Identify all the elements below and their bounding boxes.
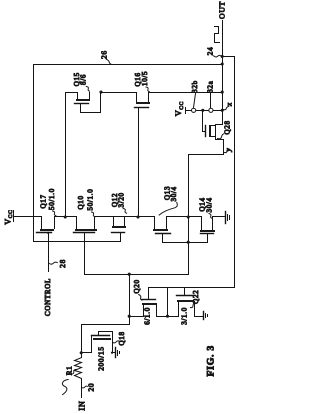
svg-text:IN: IN bbox=[78, 401, 87, 411]
wire chain segment VCC to Q17 bbox=[14, 216, 42, 218]
label Q10 50/1.0 bbox=[77, 189, 95, 217]
wire Q13 gate lead to bus2 bbox=[162, 234, 164, 243]
svg-text:30/4: 30/4 bbox=[170, 186, 178, 201]
svg-text:50/1.0: 50/1.0 bbox=[48, 188, 56, 210]
node dot bus2/y vertical bbox=[187, 241, 190, 244]
svg-text:10/5: 10/5 bbox=[141, 71, 149, 86]
node dot between circles (Q28 gate tap) bbox=[201, 109, 204, 112]
svg-text:26: 26 bbox=[99, 50, 108, 59]
svg-text:24: 24 bbox=[205, 47, 214, 56]
wire y branch down to IN loop bbox=[82, 275, 130, 358]
node dot VCC wire / OUT wire bbox=[221, 109, 224, 112]
transistor Q10 bbox=[74, 217, 98, 233]
transistor Q13 bbox=[153, 217, 171, 234]
label Q13 30/4 bbox=[159, 186, 178, 215]
label 32b bbox=[191, 80, 199, 107]
wire Q20 gate-line stub bbox=[130, 316, 144, 318]
wire mirror bus2 bbox=[163, 242, 208, 244]
node dot gate line Q20 bbox=[128, 315, 131, 318]
node dot S/D line / out-line vertical bbox=[166, 315, 169, 318]
svg-text:Q20: Q20 bbox=[133, 279, 141, 293]
svg-text:Q22: Q22 bbox=[192, 290, 200, 304]
label R1 bbox=[65, 366, 76, 376]
svg-text:Q10: Q10 bbox=[77, 195, 85, 209]
node 26 label bbox=[99, 50, 110, 64]
node dot chain/Q16 gate bbox=[136, 215, 139, 218]
node dot rail26/OUT bbox=[221, 62, 224, 65]
node 24 label bbox=[205, 47, 221, 58]
terminal circle 32b bbox=[192, 108, 196, 112]
waveform pulse symbol bbox=[215, 27, 220, 43]
node dot Q16 line / OUT wire bbox=[221, 91, 224, 94]
label Q28 bbox=[218, 120, 232, 138]
svg-text:32b: 32b bbox=[191, 80, 199, 93]
wire y line horizontal bbox=[85, 274, 189, 276]
svg-text:Q18: Q18 bbox=[118, 331, 126, 345]
label Q15 8/6 bbox=[73, 72, 90, 91]
node dot chain/vertical A bbox=[64, 215, 67, 218]
wire chain segment Q17 to Q10 bbox=[55, 216, 77, 218]
label Q18 bbox=[113, 331, 127, 345]
svg-text:30/4: 30/4 bbox=[205, 197, 213, 212]
svg-text:50/1.0: 50/1.0 bbox=[86, 189, 94, 211]
wire chain segment Q10 to Q13 (continuous over cap Q12) bbox=[95, 216, 155, 218]
wire Q28 drain from OUT wire bbox=[216, 111, 223, 125]
wire Q12 gate lead to bus1 bbox=[120, 233, 122, 242]
wire Q18 to ground bbox=[113, 352, 115, 354]
svg-text:28: 28 bbox=[58, 259, 67, 268]
wire OUT vertical bbox=[222, 21, 224, 125]
capacitor-connected transistor Q18 bbox=[82, 332, 113, 353]
wire Q22 source to ground bbox=[195, 316, 203, 318]
wire out-line bottom (py 287.7) bbox=[149, 287, 235, 289]
IN terminal bbox=[78, 401, 87, 411]
wire Q20 source segment to dot bbox=[157, 316, 179, 318]
transistor Q20 bbox=[142, 288, 158, 317]
svg-text:CONTROL: CONTROL bbox=[44, 278, 52, 316]
wire chain segment Q13 to Q14 bbox=[167, 216, 202, 218]
power VCC terminal (right, node 32) bbox=[174, 101, 186, 116]
node y label bbox=[224, 148, 232, 153]
power VCC terminal (left) bbox=[4, 209, 15, 224]
svg-text:Q17: Q17 bbox=[39, 194, 47, 208]
wire branch to right border bbox=[223, 57, 235, 288]
terminal circle 32a bbox=[209, 108, 213, 112]
resistor R1 bbox=[75, 358, 82, 398]
wire Q15 drain to Q16 bbox=[101, 92, 137, 94]
svg-text:x: x bbox=[226, 102, 234, 107]
node dot Q18 gate / IN wire bbox=[80, 351, 83, 354]
wire Q14 source to ground bbox=[213, 216, 225, 218]
node 28 label bbox=[49, 259, 67, 268]
wire Q17 gate / CONTROL lead bbox=[48, 233, 50, 272]
svg-text:32a: 32a bbox=[206, 80, 214, 92]
svg-text:200/15: 200/15 bbox=[96, 346, 105, 370]
ground (Q14) bbox=[226, 212, 230, 224]
FIG. 3 caption bbox=[205, 345, 216, 376]
transistor Q22 bbox=[177, 288, 195, 317]
ground (Q22) bbox=[204, 312, 208, 320]
wire Q10 gate lead down to y line bbox=[84, 233, 86, 275]
transistor Q16 bbox=[135, 93, 151, 108]
wire Q16 right to OUT wire bbox=[149, 92, 223, 94]
wire Q28 source to node y bbox=[189, 137, 224, 275]
OUT terminal bbox=[217, 1, 226, 19]
transistor Q28 bbox=[203, 111, 216, 138]
node dot at OUT/border branch bbox=[221, 55, 224, 58]
wire VCC to OUT wire bbox=[186, 110, 223, 112]
label 32a bbox=[206, 80, 214, 107]
capacitor-connected transistor Q12 bbox=[112, 217, 127, 233]
svg-text:8/6: 8/6 bbox=[80, 74, 88, 85]
wire vertical out-line to S/D line bbox=[167, 288, 169, 317]
node dot chain/y vertical bbox=[187, 215, 190, 218]
CONTROL label bbox=[44, 278, 52, 316]
wire Q16 gate lead down to chain bbox=[138, 108, 140, 217]
svg-text:6/1.0: 6/1.0 bbox=[144, 307, 152, 325]
transistor Q14 bbox=[200, 217, 215, 243]
wire vertical A (Q15 source down to chain) bbox=[65, 93, 67, 217]
label Q12 3/20 bbox=[111, 192, 127, 213]
wire control bus1 bbox=[34, 241, 121, 243]
node dot Q18 right corner bbox=[111, 352, 113, 354]
label Q17 50/1.0 bbox=[39, 188, 56, 216]
conductor 20 squiggle bbox=[62, 380, 95, 395]
svg-text:FIG. 3: FIG. 3 bbox=[205, 345, 216, 376]
svg-text:3/20: 3/20 bbox=[117, 192, 125, 207]
label Q14 30/4 bbox=[199, 197, 214, 218]
node dot y line branch down bbox=[128, 273, 131, 276]
svg-text:CC: CC bbox=[179, 101, 185, 110]
transistor Q17 bbox=[37, 217, 55, 234]
wire rail 26 bbox=[34, 64, 223, 66]
svg-text:Q28: Q28 bbox=[224, 120, 232, 134]
transistor Q15 bbox=[66, 91, 103, 113]
label Q16 10/5 bbox=[134, 71, 149, 92]
wire rail26 left vertical down to control bus bbox=[33, 65, 35, 242]
label Q20 bbox=[133, 279, 142, 300]
svg-text:3/1.0: 3/1.0 bbox=[180, 307, 188, 325]
svg-text:20: 20 bbox=[86, 383, 95, 392]
ground (Q18) bbox=[116, 348, 120, 358]
label Q22 bbox=[191, 290, 201, 308]
node x label bbox=[223, 102, 233, 110]
svg-text:OUT: OUT bbox=[217, 1, 226, 19]
